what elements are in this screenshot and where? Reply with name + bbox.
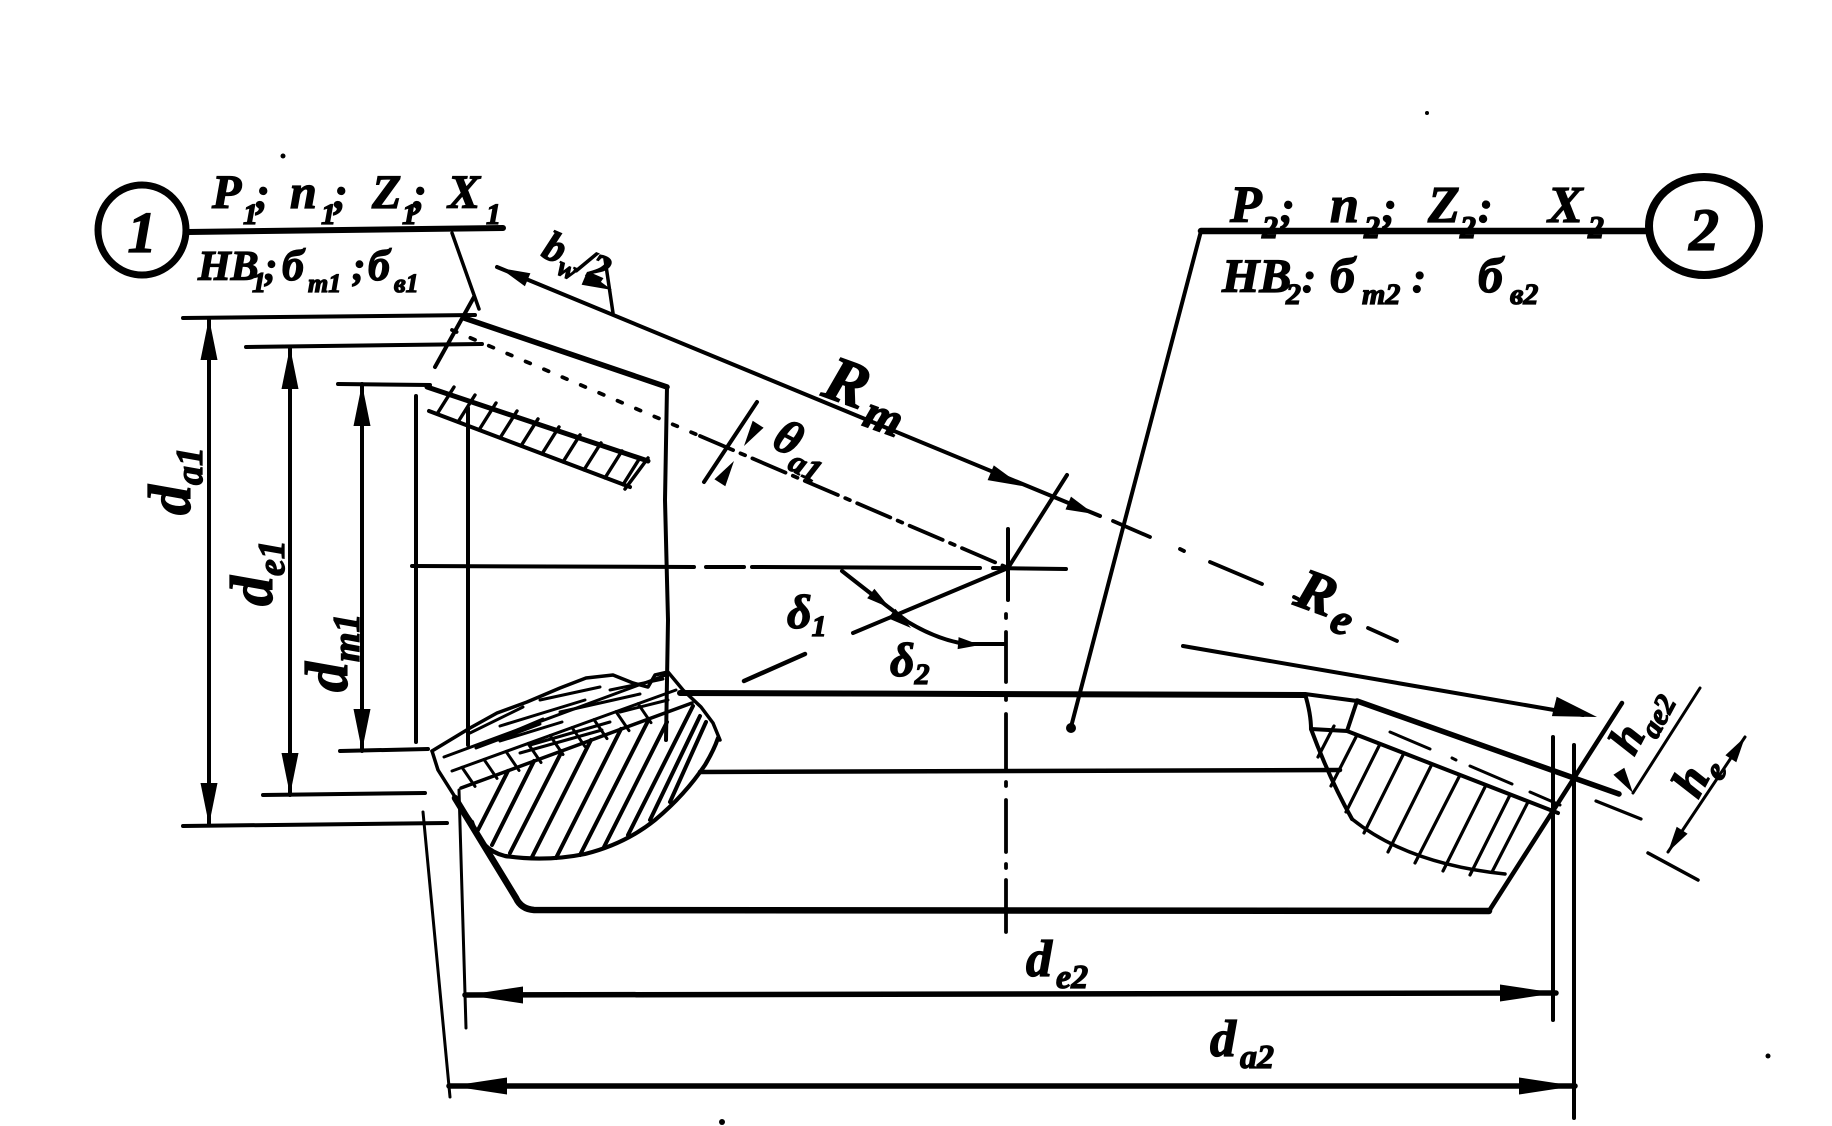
theta_a1 tick with arrows <box>704 402 757 482</box>
pinion body web line <box>466 408 470 745</box>
svg-text:т2: т2 <box>1362 278 1400 311</box>
svg-text:;: ; <box>352 244 365 289</box>
apex tick for Rm <box>1008 475 1067 568</box>
bw/2 end tick <box>605 259 613 313</box>
svg-text:X: X <box>446 166 481 219</box>
svg-text:1: 1 <box>128 200 157 265</box>
svg-text:2: 2 <box>1285 278 1301 311</box>
Re pitch dash-dot line <box>1113 521 1397 641</box>
svg-text:HB: HB <box>197 244 259 290</box>
delta arc <box>842 571 1004 644</box>
svg-text::: : <box>1412 256 1426 302</box>
tooth lower-left edge <box>1311 729 1352 819</box>
label Rm <box>811 341 921 448</box>
extension d_a2 left <box>423 812 450 1097</box>
pinion body front face <box>414 396 418 742</box>
tooth outer edge <box>1357 701 1619 794</box>
mesh scribbles <box>470 679 668 753</box>
svg-text:2: 2 <box>1587 209 1604 245</box>
svg-text:б: б <box>368 241 392 290</box>
extension line bottom d_a1 <box>183 823 447 826</box>
pitch generator through apex <box>853 568 1008 633</box>
label h_e <box>1661 744 1734 809</box>
svg-text:2: 2 <box>1688 197 1719 263</box>
svg-text:P: P <box>1229 177 1263 234</box>
svg-text:;: ; <box>1280 183 1295 232</box>
pinion rim band end step <box>625 458 648 489</box>
bw/2 right arrow <box>582 272 612 290</box>
pinion pitch cone line dotted part <box>452 330 700 436</box>
leader 2 end dot <box>1066 723 1076 733</box>
Rm end arrow <box>988 465 1022 486</box>
pinion axis center line <box>412 566 1066 569</box>
svg-text::: : <box>1302 256 1316 302</box>
pinion bottom rim hatching <box>462 767 475 786</box>
apex vertical line <box>1006 529 1010 600</box>
svg-text:d: d <box>1026 931 1053 988</box>
svg-text::: : <box>1478 183 1493 232</box>
tooth chamfer facet <box>1305 694 1357 731</box>
pinion bottom line2 <box>452 690 676 771</box>
dimension line d_a1 <box>207 318 211 825</box>
Rm dimension line <box>497 267 1100 516</box>
pinion rim root line <box>427 387 648 461</box>
svg-text:б: б <box>1330 247 1357 303</box>
pinion rim hatching <box>437 387 454 414</box>
label d_a1 <box>137 447 211 515</box>
speck <box>719 1119 725 1125</box>
pinion rim addendum edge <box>464 318 667 387</box>
gear2 bottom edge <box>455 798 1489 911</box>
leader line 2 <box>1071 231 1201 727</box>
dimension line d_a2 <box>449 1083 1575 1089</box>
extension line bottom d_e1 <box>263 793 425 795</box>
balloon circle 1 <box>98 185 186 275</box>
dimension line d_e1 <box>288 347 292 795</box>
Re dimension arrow line <box>1183 646 1583 715</box>
mesh blob bottom arc <box>472 738 718 859</box>
pinion bottom root line <box>461 703 692 788</box>
extension line top d_m1 <box>338 384 430 385</box>
tooth root extension <box>1648 853 1698 880</box>
svg-text:Z: Z <box>371 166 401 219</box>
dimension line d_m1 <box>360 384 364 751</box>
svg-text:в2: в2 <box>1510 278 1538 311</box>
tooth bottom arc <box>1352 819 1505 874</box>
svg-text:в1: в1 <box>394 269 419 298</box>
label bw/2 <box>533 223 617 299</box>
svg-text:X: X <box>1546 177 1584 234</box>
bw/2 left arrow <box>500 268 530 286</box>
svg-text:e2: e2 <box>1056 959 1088 996</box>
svg-text:;: ; <box>255 169 270 218</box>
callout underline 1 <box>188 228 503 232</box>
pinion pitch cone line dash-dot part <box>700 436 1006 567</box>
mesh blob left edge <box>432 751 472 822</box>
gear2 face line <box>700 770 1340 772</box>
svg-text:;: ; <box>333 169 348 218</box>
svg-text:n: n <box>290 166 317 219</box>
label Re <box>1284 555 1369 646</box>
svg-text:б: б <box>1478 247 1505 303</box>
balloon circle 2 <box>1649 177 1759 275</box>
dimension line d_e2 <box>465 993 1556 995</box>
svg-text:;: ; <box>264 244 277 289</box>
gear2 top edge <box>680 693 1305 695</box>
mesh hatching <box>478 771 508 830</box>
pitch extension dash <box>1596 801 1641 819</box>
label delta2 <box>890 634 930 691</box>
label d_e1 <box>219 540 293 606</box>
h_ae2 dimension line <box>1633 688 1700 793</box>
mesh blob outline top <box>432 672 720 751</box>
pinion bottom addendum line <box>444 675 666 757</box>
label theta_a1 <box>761 409 840 490</box>
tooth root line <box>1347 731 1558 813</box>
label delta1 <box>787 586 827 643</box>
Rm small arrow 2 <box>1066 497 1095 514</box>
svg-text:Z: Z <box>1427 177 1460 234</box>
svg-text:б: б <box>282 241 306 290</box>
extension d_a2 right <box>1572 745 1576 1118</box>
h_e dimension line <box>1668 737 1745 852</box>
extension d_e2 left <box>459 790 466 1028</box>
pinion rim front edge <box>435 297 474 367</box>
svg-text:d: d <box>1210 1011 1237 1068</box>
gear axis center line (dash-dot) <box>1004 614 1008 932</box>
extension line top d_e1 <box>246 344 482 347</box>
label d_m1 <box>294 613 368 692</box>
callout underline 2 <box>1201 228 1649 235</box>
svg-text:;: ; <box>1382 183 1397 232</box>
label h_ae2 <box>1598 677 1683 766</box>
speck <box>1425 111 1429 115</box>
svg-text:2: 2 <box>1363 209 1380 245</box>
speck <box>281 154 286 159</box>
pinion rim inner line <box>429 411 630 487</box>
svg-text:2: 2 <box>1459 209 1476 245</box>
extension d_e2 right <box>1551 737 1555 1020</box>
svg-text:2: 2 <box>1261 209 1278 245</box>
tooth pitch dashes <box>1390 732 1560 805</box>
gear2 right face / h tick <box>1489 703 1622 911</box>
svg-text:a2: a2 <box>1240 1039 1274 1076</box>
speck <box>1766 1054 1771 1059</box>
tooth hatching <box>1318 726 1334 757</box>
svg-text:n: n <box>1330 177 1359 234</box>
svg-text:1: 1 <box>486 198 501 231</box>
svg-text:HB: HB <box>1221 250 1291 303</box>
pinion back face <box>665 387 668 740</box>
svg-text:P: P <box>211 166 242 219</box>
extension line top d_a1 <box>183 315 475 318</box>
svg-text:т1: т1 <box>308 269 341 298</box>
extension line bottom d_m1 <box>340 749 428 751</box>
svg-text:;: ; <box>412 169 427 218</box>
pitch generator dash <box>744 654 805 681</box>
leader line 1 <box>452 233 479 309</box>
